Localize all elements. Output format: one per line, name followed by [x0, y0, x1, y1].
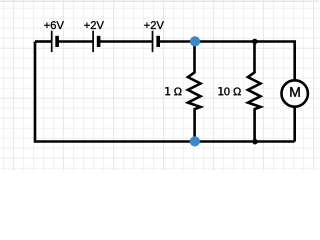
label 10 ohm: [219, 87, 241, 95]
junction dot (black) bottom at resistor R2: [252, 139, 257, 144]
resistor R1 1 ohm: [188, 42, 201, 142]
label M: [290, 87, 299, 97]
node (blue) top at resistor R1: [190, 36, 200, 46]
label 1 ohm: [165, 87, 181, 95]
wire: battery V3 to top-right corner and down to motor: [159, 42, 295, 81]
battery V2 +2V plates: [92, 31, 100, 52]
label +2V (V3): [144, 21, 164, 29]
resistor R2 10 ohm: [248, 42, 261, 142]
wire: battery V2 to battery V3: [99, 40, 152, 43]
wire: top-left segment to battery V1: [35, 40, 51, 43]
label +2V (V2): [84, 21, 104, 29]
label +6V: [44, 21, 64, 29]
junction dot (black) top at resistor R2: [252, 39, 257, 44]
battery V1 +6V plates: [51, 31, 59, 52]
motor M1 circle: [282, 80, 308, 106]
node (blue) bottom at resistor R1: [190, 136, 200, 146]
battery V3 +2V plates: [152, 31, 160, 52]
wire: left vertical + bottom wire: [35, 42, 295, 142]
wire: motor bottom lead: [293, 107, 296, 142]
wire: battery V1 to battery V2: [58, 40, 93, 43]
